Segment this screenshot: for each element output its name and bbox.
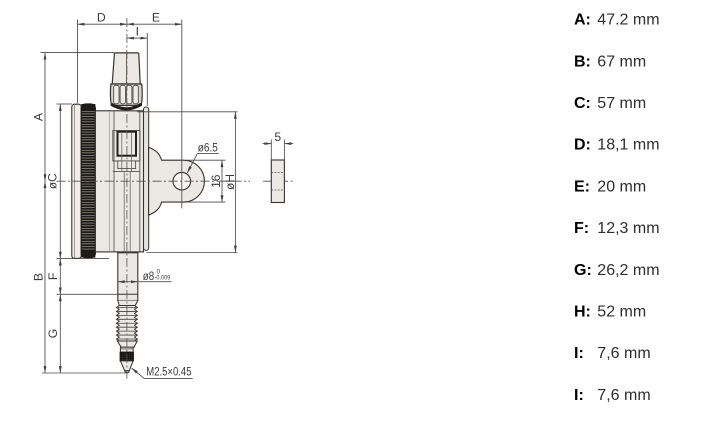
svg-text:7,6 mm: 7,6 mm	[597, 387, 650, 404]
svg-text:I:: I:	[574, 345, 584, 362]
svg-text:D:: D:	[574, 137, 591, 154]
contact point cone and tip	[120, 361, 133, 373]
svg-text:G: G	[46, 329, 60, 338]
contact point knurled holder (black)	[120, 352, 133, 361]
svg-text:E:: E:	[574, 178, 590, 195]
svg-text:67 mm: 67 mm	[597, 53, 646, 70]
dimension øC (bezel diameter)	[57, 104, 110, 259]
svg-text:F: F	[46, 273, 60, 280]
svg-text:B: B	[31, 273, 45, 281]
stem ø8	[118, 253, 138, 306]
dimension M2.5x0.45 leader (contact thread)	[132, 368, 193, 378]
dimension I (axis to back face)	[127, 33, 147, 106]
top cap	[112, 53, 140, 84]
dimension D (bezel depth)	[78, 20, 127, 104]
svg-text:16: 16	[209, 174, 223, 188]
svg-text:47.2 mm: 47.2 mm	[597, 12, 659, 29]
bezel knurled band (black hatched)	[81, 104, 95, 258]
back plate (lug mounting plate)	[144, 107, 149, 250]
svg-text:52 mm: 52 mm	[597, 304, 646, 321]
dimension 16 (lug height)	[186, 160, 226, 202]
svg-text:I: I	[136, 25, 139, 39]
dimension E (axis to lug hole)	[127, 20, 182, 209]
stem boss under case	[116, 252, 140, 254]
svg-text:I:: I:	[574, 387, 584, 404]
svg-text:D: D	[97, 11, 106, 25]
svg-text:E: E	[152, 11, 160, 25]
horizontal centerline main view	[57, 180, 251, 182]
dimension value list panel	[574, 12, 660, 404]
dimension øH (case diameter)	[137, 112, 238, 253]
svg-text:57 mm: 57 mm	[597, 95, 646, 112]
dimension G (stem step to contact tip)	[59, 294, 61, 373]
svg-text:26,2 mm: 26,2 mm	[597, 262, 659, 279]
svg-text:A:: A:	[574, 12, 591, 29]
svg-text:12,3 mm: 12,3 mm	[597, 220, 659, 237]
dimension ø8 with tolerance (stem)	[118, 281, 172, 283]
svg-text:G:: G:	[574, 262, 592, 279]
svg-text:5: 5	[274, 130, 281, 144]
svg-text:A: A	[31, 112, 45, 121]
lower cone and ring	[117, 341, 137, 352]
svg-text:C:: C:	[574, 95, 591, 112]
svg-text:-0.009: -0.009	[155, 275, 171, 282]
svg-text:øH: øH	[223, 174, 237, 190]
svg-text:H:: H:	[574, 304, 591, 321]
vertical centerline of stem axis	[126, 18, 128, 379]
main case ø52	[95, 111, 143, 252]
dimension A (cap top to axis)	[41, 53, 115, 182]
svg-text:ø6.5: ø6.5	[198, 140, 218, 154]
horizontal centerline side view	[263, 180, 294, 182]
dimension 5 (lug plate thickness)	[263, 140, 294, 161]
svg-text:F:: F:	[574, 220, 589, 237]
lug hole ø6.5	[173, 172, 191, 190]
svg-text:øC: øC	[46, 173, 60, 189]
svg-text:18,1 mm: 18,1 mm	[597, 137, 659, 154]
side view of lug plate (5 mm thick)	[271, 160, 284, 203]
svg-text:M2.5×0.45: M2.5×0.45	[146, 365, 191, 379]
mounting lug with stadium end	[149, 147, 205, 215]
dimension F (bezel bottom to stem step)	[57, 259, 118, 295]
spindle clamp bracket inside case	[113, 131, 140, 172]
svg-text:20 mm: 20 mm	[597, 178, 646, 195]
dimension ø6.5 leader (lug hole)	[187, 153, 219, 173]
dimension B (axis to contact tip)	[42, 181, 126, 373]
bezel front rim	[72, 104, 81, 258]
svg-text:7,6 mm: 7,6 mm	[597, 345, 650, 362]
knurled crown ring	[110, 84, 142, 109]
svg-text:ø8: ø8	[143, 269, 155, 283]
thread bellows section	[116, 306, 137, 342]
spindle lines through case and stem	[122, 132, 132, 347]
svg-text:B:: B:	[574, 53, 591, 70]
